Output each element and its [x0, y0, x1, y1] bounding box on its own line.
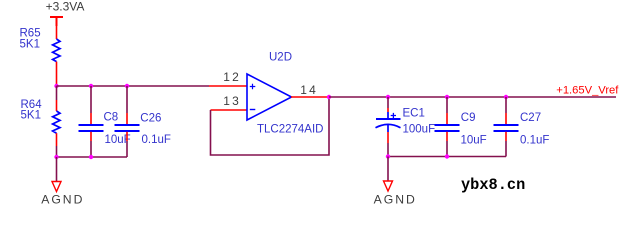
- wire to right AGND: [387, 157, 389, 182]
- pin 12 wire (op-amp non-inverting input): [209, 85, 247, 87]
- svg-text:C9: C9: [461, 112, 476, 124]
- pin 14 wire (op-amp output): [291, 96, 329, 98]
- svg-text:AGND: AGND: [41, 193, 84, 207]
- capacitor C9: [435, 97, 460, 157]
- svg-text:100uF: 100uF: [403, 123, 436, 135]
- resistor R65: [53, 39, 60, 86]
- svg-text:ybx8.cn: ybx8.cn: [461, 176, 525, 194]
- junction dot C8 top (91,86): [89, 84, 93, 88]
- svg-text:+1.65V_Vref: +1.65V_Vref: [556, 84, 619, 96]
- svg-text:AGND: AGND: [374, 193, 417, 207]
- resistor R64: [53, 86, 60, 157]
- op-amp U2D: [247, 74, 292, 120]
- wire output bus to +1.65V_Vref: [329, 96, 616, 98]
- svg-text:C8: C8: [104, 112, 119, 124]
- capacitor C27: [494, 97, 519, 157]
- feedback wire (output to pin 13): [211, 97, 330, 155]
- wire power to R65: [56, 26, 58, 39]
- svg-text:12: 12: [223, 70, 241, 84]
- wire bottom-left ground bus: [57, 156, 128, 158]
- svg-text:0.1uF: 0.1uF: [520, 135, 549, 147]
- junction dot C27 top (506,97): [504, 95, 508, 99]
- svg-text:5K1: 5K1: [20, 38, 40, 50]
- wire bottom-right ground bus: [388, 156, 506, 158]
- svg-text:13: 13: [223, 94, 241, 108]
- svg-text:14: 14: [300, 83, 318, 97]
- capacitor C8: [79, 86, 104, 157]
- junction dot (91,157): [89, 155, 93, 159]
- wire to left AGND: [56, 157, 58, 181]
- capacitor EC1 (electrolytic): [376, 97, 401, 157]
- wire node A horizontal bus to op-amp: [57, 85, 210, 87]
- svg-text:C26: C26: [140, 112, 161, 124]
- svg-text:U2D: U2D: [269, 52, 292, 64]
- junction dot (447,156.5): [445, 154, 449, 158]
- junction node A (56,86): [54, 84, 58, 88]
- junction dot C9 top (447,97): [445, 95, 449, 99]
- svg-text:5K1: 5K1: [21, 109, 41, 121]
- ground AGND right: [374, 181, 417, 207]
- svg-text:10uF: 10uF: [461, 135, 487, 147]
- pin 13 wire (op-amp inverting input): [211, 109, 248, 111]
- junction dot EC1 top (388,97): [386, 95, 390, 99]
- power +3.3VA: [46, 0, 85, 26]
- svg-text:0.1uF: 0.1uF: [142, 134, 171, 146]
- svg-text:EC1: EC1: [403, 108, 425, 120]
- junction dot output (329,97): [327, 95, 331, 99]
- junction dot (56,157): [54, 155, 58, 159]
- ground AGND left: [41, 182, 84, 207]
- junction dot (388,156.5): [386, 154, 390, 158]
- capacitor C26: [115, 86, 140, 157]
- junction dot C26 top (127,86): [125, 84, 129, 88]
- svg-text:TLC2274AID: TLC2274AID: [257, 124, 323, 136]
- svg-text:C27: C27: [520, 112, 541, 124]
- svg-text:+3.3VA: +3.3VA: [46, 0, 85, 14]
